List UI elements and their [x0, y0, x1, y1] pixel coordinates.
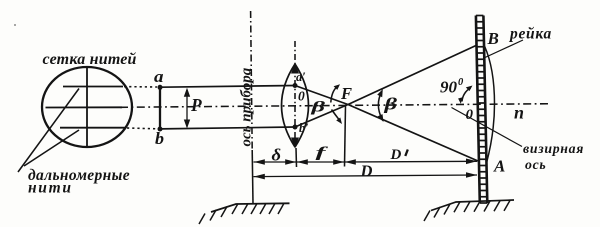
svg-text:β: β [383, 95, 398, 114]
ray a to a' [161, 86, 295, 88]
svg-text:ось: ось [525, 157, 546, 172]
instrument axis vertical dash-dot [251, 11, 253, 150]
lens top arrowhead [291, 63, 299, 74]
svg-text:нити: нити [28, 180, 73, 197]
svg-text:a: a [154, 67, 164, 86]
svg-text:D: D [360, 162, 373, 181]
90 degree arc [462, 88, 471, 102]
node b' [293, 125, 298, 130]
dimension line f [297, 161, 345, 163]
svg-text:90: 90 [440, 78, 458, 97]
svg-text:β: β [310, 100, 326, 116]
svg-text:рейка: рейка [508, 26, 552, 43]
svg-text:ось прибора: ось прибора [239, 67, 255, 146]
speck [14, 24, 16, 26]
vertical crosshair [86, 68, 88, 147]
brace n [485, 46, 495, 163]
dimension line D' [345, 160, 478, 163]
middle hair [46, 106, 123, 108]
svg-text:0: 0 [298, 89, 305, 104]
node a' [293, 83, 298, 88]
svg-text:b: b [155, 129, 164, 148]
svg-text:A: A [493, 157, 505, 176]
dimension line D [254, 175, 478, 177]
svg-text:F: F [340, 84, 352, 103]
svg-text:D: D [390, 147, 402, 163]
lower stadia hair [60, 127, 126, 129]
extension line below lens [295, 148, 298, 167]
svg-text:n: n [514, 103, 524, 123]
svg-text:визирная: визирная [523, 141, 584, 156]
svg-text:δ: δ [272, 146, 282, 165]
instrument axis vertical solid lower part [251, 150, 254, 204]
pointer line to lower hair [24, 130, 79, 166]
left beta angle arrow lower [332, 110, 340, 121]
ground right [431, 200, 514, 211]
dotted link upper hair to a [124, 86, 157, 88]
right beta angle arc [378, 92, 382, 119]
ray a' to F [295, 86, 348, 105]
lens body left arc [282, 64, 296, 147]
ray F to A [348, 105, 478, 162]
leader to визирная ось [452, 108, 523, 147]
ray b to b' [161, 127, 295, 129]
ray b' to F [295, 105, 348, 128]
wire a-b vertical [159, 87, 161, 129]
optical axis (main dash-dot) [120, 104, 551, 108]
lens bottom arrowhead [291, 138, 299, 149]
svg-text:0: 0 [458, 77, 464, 88]
left beta angle arrow upper [331, 87, 337, 103]
reticle ellipse [42, 67, 132, 147]
pointer line to upper hair [18, 89, 79, 173]
ground right hatches [424, 200, 510, 221]
leader from рейка [485, 40, 523, 58]
svg-text:0: 0 [466, 107, 474, 123]
staff (рейка) ladder [476, 16, 487, 204]
P dimension arrow [186, 90, 188, 127]
extension line below F [345, 106, 346, 167]
svg-text:b′: b′ [299, 121, 309, 135]
dotted link lower hair to b [127, 127, 157, 130]
upper stadia hair [63, 86, 123, 88]
node a [158, 85, 163, 90]
ray F to B [348, 46, 476, 105]
lens axis dash-dot [294, 41, 296, 147]
lens body right arc [295, 64, 309, 147]
node b [158, 127, 163, 132]
dimension line delta [254, 161, 297, 163]
svg-text:сетка нитей: сетка нитей [43, 51, 137, 68]
ground left [211, 203, 290, 212]
svg-text:P: P [190, 95, 202, 115]
ground left hatches [199, 203, 284, 224]
svg-text:a′: a′ [296, 70, 306, 84]
svg-text:B: B [487, 29, 499, 48]
